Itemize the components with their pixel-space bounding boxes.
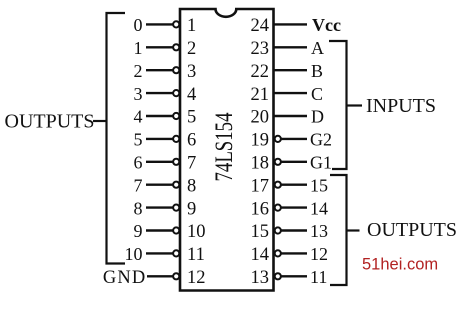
svg-text:C: C xyxy=(311,84,323,104)
svg-text:15: 15 xyxy=(251,222,270,242)
inverter bubble pin 10 xyxy=(173,227,179,233)
right outputs bracket tick xyxy=(347,229,360,231)
wire output 4 to pin 5 xyxy=(146,115,173,117)
svg-text:B: B xyxy=(311,61,323,81)
svg-text:11: 11 xyxy=(187,245,205,265)
svg-text:GND: GND xyxy=(103,268,147,288)
svg-text:51hei.com: 51hei.com xyxy=(362,256,438,274)
svg-text:21: 21 xyxy=(251,85,270,105)
svg-text:6: 6 xyxy=(187,131,196,151)
svg-text:3: 3 xyxy=(134,84,143,104)
label 74LS154 xyxy=(211,112,238,181)
svg-text:5: 5 xyxy=(134,130,143,150)
inverter bubble pin 13 xyxy=(275,273,281,279)
svg-text:7: 7 xyxy=(134,175,143,195)
wire pin 13 to output 11 xyxy=(281,275,307,277)
svg-text:24: 24 xyxy=(251,16,270,36)
svg-text:14: 14 xyxy=(251,245,270,265)
svg-text:9: 9 xyxy=(134,221,143,241)
IC U1 74LS154 body xyxy=(180,9,274,291)
svg-text:5: 5 xyxy=(187,108,196,128)
svg-text:8: 8 xyxy=(134,198,143,218)
svg-text:11: 11 xyxy=(310,267,327,287)
wire output 0 to pin 1 xyxy=(146,23,173,25)
svg-text:10: 10 xyxy=(125,244,143,264)
svg-text:12: 12 xyxy=(187,268,206,288)
inverter bubble pin 12 xyxy=(173,273,179,279)
inverter bubble pin 18 xyxy=(275,159,281,165)
wire output 1 to pin 2 xyxy=(146,46,173,48)
wire output 8 to pin 9 xyxy=(146,206,173,208)
wire pin 17 to output 15 xyxy=(281,183,307,185)
svg-text:OUTPUTS: OUTPUTS xyxy=(367,219,457,241)
left outputs bracket tick xyxy=(93,120,107,122)
svg-text:1: 1 xyxy=(187,16,196,36)
svg-text:13: 13 xyxy=(310,221,328,241)
inverter bubble pin 3 xyxy=(173,67,179,73)
svg-text:OUTPUTS: OUTPUTS xyxy=(5,111,95,133)
wire pin 21 to C xyxy=(274,92,307,94)
svg-text:2: 2 xyxy=(187,39,196,59)
inputs bracket xyxy=(329,41,347,169)
svg-text:4: 4 xyxy=(187,85,196,105)
wire pin 19 to G2 xyxy=(281,138,307,140)
svg-text:INPUTS: INPUTS xyxy=(366,95,436,117)
svg-text:1: 1 xyxy=(134,38,143,58)
svg-text:0: 0 xyxy=(134,15,143,35)
wire GND to pin 12 xyxy=(147,275,173,277)
svg-text:22: 22 xyxy=(251,62,270,82)
inverter bubble pin 8 xyxy=(173,182,179,188)
svg-text:Vcc: Vcc xyxy=(312,15,341,35)
inverter bubble pin 9 xyxy=(173,205,179,211)
wire pin 23 to A xyxy=(274,46,307,48)
wire output 2 to pin 3 xyxy=(146,69,173,71)
wire pin 18 to G1 xyxy=(281,161,307,163)
svg-text:3: 3 xyxy=(187,62,196,82)
wire output 9 to pin 10 xyxy=(146,229,173,231)
svg-text:74LS154: 74LS154 xyxy=(211,112,238,181)
inverter bubble pin 15 xyxy=(275,227,281,233)
inverter bubble pin 5 xyxy=(173,113,179,119)
svg-text:G2: G2 xyxy=(310,130,332,150)
inverter bubble pin 4 xyxy=(173,90,179,96)
inverter bubble pin 11 xyxy=(173,250,179,256)
svg-text:8: 8 xyxy=(187,176,196,196)
wire output 5 to pin 6 xyxy=(146,138,173,140)
inverter bubble pin 17 xyxy=(275,182,281,188)
svg-text:15: 15 xyxy=(310,175,328,195)
right outputs bracket xyxy=(330,175,347,285)
inverter bubble pin 14 xyxy=(275,250,281,256)
svg-text:A: A xyxy=(311,38,324,58)
svg-text:12: 12 xyxy=(310,244,328,264)
svg-text:4: 4 xyxy=(134,107,143,127)
svg-text:23: 23 xyxy=(251,39,270,59)
wire pin 20 to D xyxy=(274,115,307,117)
inverter bubble pin 2 xyxy=(173,44,179,50)
svg-text:D: D xyxy=(311,107,324,127)
inverter bubble pin 1 xyxy=(173,21,179,27)
inverter bubble pin 7 xyxy=(173,159,179,165)
svg-text:10: 10 xyxy=(187,222,206,242)
svg-text:6: 6 xyxy=(134,153,143,173)
svg-text:2: 2 xyxy=(134,61,143,81)
inputs bracket tick xyxy=(347,104,363,106)
left outputs bracket xyxy=(107,13,126,264)
wire output 10 to pin 11 xyxy=(146,252,173,254)
wire pin 22 to B xyxy=(274,69,307,71)
inverter bubble pin 16 xyxy=(275,205,281,211)
wire output 7 to pin 8 xyxy=(146,183,173,185)
svg-text:7: 7 xyxy=(187,154,196,174)
svg-text:20: 20 xyxy=(251,108,270,128)
svg-text:14: 14 xyxy=(310,198,328,218)
wire pin 16 to output 14 xyxy=(281,206,307,208)
wire output 3 to pin 4 xyxy=(146,92,173,94)
svg-text:17: 17 xyxy=(251,176,270,196)
wire output 6 to pin 7 xyxy=(146,161,173,163)
wire pin 14 to output 12 xyxy=(281,252,307,254)
wire pin 15 to output 13 xyxy=(281,229,307,231)
inverter bubble pin 6 xyxy=(173,136,179,142)
svg-text:19: 19 xyxy=(251,131,270,151)
svg-text:G1: G1 xyxy=(310,153,332,173)
svg-text:13: 13 xyxy=(251,268,270,288)
wire pin 24 to Vcc xyxy=(274,23,307,25)
svg-text:9: 9 xyxy=(187,199,196,219)
inverter bubble pin 19 xyxy=(275,136,281,142)
svg-text:18: 18 xyxy=(251,154,270,174)
svg-text:16: 16 xyxy=(251,199,270,219)
